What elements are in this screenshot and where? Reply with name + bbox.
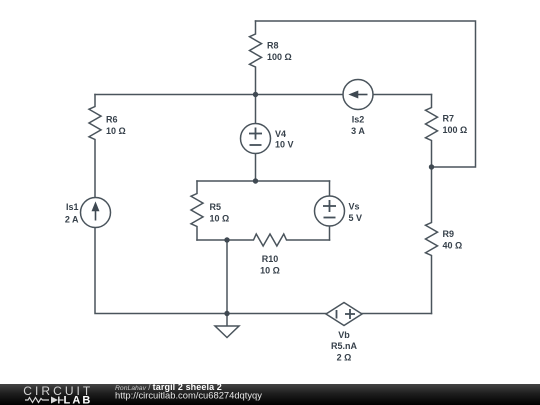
resistor R7 (426, 95, 438, 168)
voltage source Vs (315, 196, 345, 226)
wire Vs right side (329, 181, 331, 240)
svg-text:V4: V4 (275, 129, 286, 139)
wire bottom right (362, 313, 432, 315)
svg-text:http://circuitlab.com/cu68274d: http://circuitlab.com/cu68274dqtyqy (115, 389, 262, 400)
junction dots (224, 92, 434, 316)
svg-text:2 Ω: 2 Ω (337, 353, 352, 363)
current source Is2 (343, 80, 373, 110)
wire top from R8 to right edge and down to R7/R9 node (256, 21, 476, 167)
resistor R5 (191, 181, 203, 240)
dependent source Vb diamond (326, 303, 362, 326)
node R8/V4/main wire (253, 92, 258, 97)
Vs minus sign (324, 217, 336, 219)
wire main horizontal (95, 94, 432, 96)
svg-text:Vs: Vs (349, 202, 360, 212)
ground (226, 314, 228, 327)
svg-text:10 Ω: 10 Ω (106, 126, 126, 136)
voltage source V4 (241, 124, 271, 154)
Is2 arrow left (357, 94, 368, 96)
footer bar (0, 384, 540, 405)
svg-text:R6: R6 (106, 115, 118, 125)
logo diode (51, 397, 60, 404)
node V4/box top (253, 178, 258, 183)
Vb plus sign (345, 313, 355, 315)
resistor R8 (250, 21, 262, 95)
svg-text:R9: R9 (443, 229, 455, 239)
Is1 arrow up (93, 92, 368, 221)
node ground/bottom wire (224, 311, 229, 316)
svg-text:5 V: 5 V (349, 213, 363, 223)
wire middle box top (197, 180, 330, 182)
svg-text:R8: R8 (267, 41, 279, 51)
svg-text:Is1: Is1 (66, 202, 79, 212)
resistor R10 and bottom box wire (197, 234, 330, 246)
svg-text:10 Ω: 10 Ω (260, 266, 280, 276)
svg-text:40 Ω: 40 Ω (443, 241, 463, 251)
svg-text:LAB: LAB (64, 395, 93, 405)
wire V4 branch (255, 95, 257, 182)
Vs plus sign (323, 205, 336, 207)
svg-text:3 A: 3 A (351, 126, 365, 136)
Vb minus bar (336, 310, 338, 319)
V4 plus sign (249, 128, 355, 320)
svg-text:R5.nA: R5.nA (331, 341, 358, 351)
svg-text:Vb: Vb (338, 330, 350, 340)
svg-text:10 V: 10 V (275, 140, 294, 150)
resistor R9 (426, 167, 438, 314)
wire ground drop (226, 240, 228, 314)
node R7/R9/right wire (429, 164, 434, 169)
node box bottom/ground (224, 237, 229, 242)
svg-text:100 Ω: 100 Ω (443, 125, 468, 135)
V4 minus sign (250, 144, 262, 146)
current source Is1 (81, 198, 111, 228)
wire bottom left (95, 228, 326, 314)
logo zigzag (25, 398, 49, 403)
svg-text:R7: R7 (443, 114, 455, 124)
svg-text:100 Ω: 100 Ω (267, 52, 292, 62)
resistor R6 (89, 95, 101, 199)
svg-text:10 Ω: 10 Ω (210, 214, 230, 224)
svg-text:R10: R10 (262, 254, 279, 264)
svg-text:Is2: Is2 (352, 115, 365, 125)
svg-text:R5: R5 (210, 202, 222, 212)
svg-text:2 A: 2 A (65, 215, 79, 225)
